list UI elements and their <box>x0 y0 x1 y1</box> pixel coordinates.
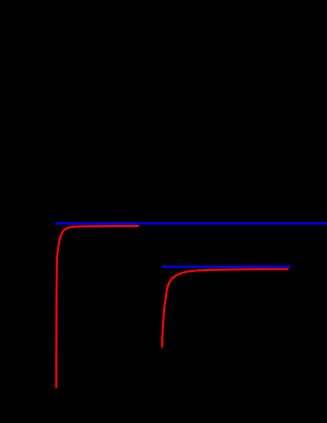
asymptote line 2 (blue) <box>162 266 290 268</box>
curve 2 (red step-response curve) <box>162 269 288 347</box>
asymptote line 1 (blue) <box>55 222 327 224</box>
curve 1 (red step-response curve) <box>56 226 139 388</box>
